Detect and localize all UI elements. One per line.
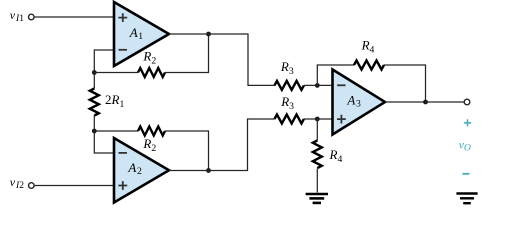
terminal vO (464, 99, 470, 105)
resistor R4 (to ground) (313, 141, 343, 169)
wire node C to R2 bottom (94, 130, 138, 132)
resistor R2 (A2 feedback) (138, 127, 165, 154)
node C (A2 feedback junction) (92, 129, 97, 134)
resistor 2R1 (90, 89, 125, 116)
wire R3 bottom to A3 + input (304, 118, 333, 120)
node E (A3 - input junction) (315, 83, 320, 88)
resistor R3 (upper) (275, 59, 304, 90)
wire A1 - input to node B (94, 50, 114, 73)
wire A1 output to R3 top (169, 34, 275, 85)
label vI1 (10, 8, 24, 24)
op-amp A1 (114, 2, 169, 66)
terminal vI2 (29, 183, 35, 189)
wire R3 top to A3 - input (304, 84, 333, 86)
wire R2 bottom to A2 output node (165, 131, 209, 171)
label vO (459, 138, 471, 154)
resistor R3 (lower) (275, 94, 304, 123)
wire A3 output to terminal (385, 101, 464, 103)
op-amp A3 (333, 70, 386, 135)
wire node E up to R4 feedback (317, 65, 354, 85)
ground (right, output reference) (456, 194, 477, 204)
node G (A3 + input junction) (315, 117, 320, 122)
wire A2 output to R3 bottom (169, 119, 275, 171)
node H (output junction) (423, 100, 428, 105)
wire vertical node B to 2R1 (93, 73, 95, 89)
label - (output polarity) (462, 173, 469, 175)
node D (A1 output junction) (206, 32, 211, 37)
wire 2R1 to node C (93, 116, 95, 132)
node B (A1 feedback junction) (92, 70, 97, 75)
op-amp A2 (114, 138, 169, 203)
wire vI1 to A1 + input (35, 16, 115, 18)
wire node C to A2 - input (94, 131, 114, 153)
label + (output polarity) (464, 119, 471, 126)
wire R4 to ground (316, 169, 318, 193)
resistor R4 (A3 feedback) (354, 38, 384, 70)
label vI2 (10, 175, 24, 191)
ground (left) (306, 194, 328, 203)
terminal vI1 (29, 14, 35, 20)
wire R2 top to A1 output node (165, 34, 209, 73)
resistor R2 (A1 feedback) (138, 48, 165, 77)
wire node B to R2 top (94, 72, 138, 74)
wire node G down to R4 (316, 119, 318, 141)
wire vI2 to A2 + input (35, 185, 115, 187)
wire R4 feedback to output node (384, 65, 426, 102)
node F (A2 output junction) (206, 168, 211, 173)
